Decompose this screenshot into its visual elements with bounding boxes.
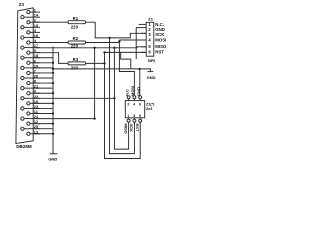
wire DB25 pin 24 stub bbox=[24, 118, 40, 120]
node junction MISO branch A bbox=[93, 47, 95, 49]
ground symbol right of Z1 bbox=[147, 71, 153, 73]
wire DB25 pin 5 stub bbox=[30, 52, 40, 54]
node DB25 pin 18 bbox=[21, 56, 24, 59]
node DB25 pin 13 bbox=[27, 132, 30, 135]
node DB25 pin 7 bbox=[27, 71, 30, 74]
wire DB25 row 13 to ground bus bbox=[33, 133, 53, 135]
svg-text:5: 5 bbox=[148, 44, 151, 49]
resistor R2 bbox=[68, 41, 86, 44]
svg-text:MOSI: MOSI bbox=[130, 86, 135, 96]
DB25 pin numbers bbox=[34, 8, 39, 135]
svg-text:4: 4 bbox=[148, 38, 151, 43]
node DB25 pin 23 bbox=[21, 107, 24, 110]
DB25 pin circles bbox=[21, 10, 30, 135]
svg-text:MOSI: MOSI bbox=[155, 38, 166, 43]
svg-text:SCK: SCK bbox=[155, 32, 165, 37]
node DB25 pin 6 bbox=[27, 61, 30, 64]
wire pin stubs DB25 bbox=[24, 12, 53, 134]
svg-text:Z3: Z3 bbox=[19, 2, 25, 7]
node ground bus junction bbox=[52, 62, 54, 64]
node ground bus junction bbox=[52, 102, 54, 104]
wire DB25 pin 8 stub bbox=[30, 82, 40, 84]
node DB25 pin 16 bbox=[21, 36, 24, 39]
svg-text:GND: GND bbox=[136, 87, 141, 96]
wire DB25 pin 17 stub bbox=[24, 47, 40, 49]
svg-text:3: 3 bbox=[148, 32, 151, 37]
wire GND junction down to Z2 top pin6 bbox=[139, 69, 141, 96]
wire DB25 pin 12 stub bbox=[30, 123, 40, 125]
wire Z1 pin2 GND stub and down bbox=[136, 28, 146, 59]
wire SCK branch down mid U-loop to Z2 bbox=[110, 38, 135, 154]
wire RST: R3 out, up at x104.5, right into Z1 pin6 bbox=[86, 52, 147, 63]
wire Z1 pin1 stub bbox=[139, 23, 147, 25]
svg-text:GND: GND bbox=[147, 75, 156, 80]
svg-text:5: 5 bbox=[139, 114, 141, 118]
svg-text:N.C: N.C bbox=[124, 89, 129, 96]
wire DB25 pin2 to R1 bbox=[33, 21, 68, 23]
wire Z2 bottom pin stubs bbox=[129, 118, 141, 119]
wire DB25 row 7 to ground bus bbox=[33, 72, 53, 74]
node junction MOSI branch bbox=[118, 40, 120, 42]
wire DB25 pin 2 stub bbox=[30, 21, 40, 23]
connector Z3 DB25M body bbox=[16, 8, 33, 144]
node junction SCK branch bbox=[108, 37, 110, 39]
node Z2 top pin circles bbox=[127, 96, 130, 99]
Z1 pin numbers bbox=[148, 22, 151, 55]
wire DB25 pin 25 stub bbox=[24, 128, 40, 130]
svg-text:SCK: SCK bbox=[129, 124, 134, 133]
node DB25 pin 5 bbox=[27, 51, 30, 54]
svg-text:R1: R1 bbox=[73, 16, 79, 21]
wire DB25 pin 9 stub bbox=[30, 92, 40, 94]
svg-text:6: 6 bbox=[139, 103, 141, 107]
wire DB25 row 9 to ground bus bbox=[33, 92, 53, 94]
node ground bus junction bbox=[52, 72, 54, 74]
svg-text:Z2(*): Z2(*) bbox=[146, 103, 155, 107]
node ground bus junction bbox=[52, 92, 54, 94]
node DB25 pin 14 bbox=[21, 16, 24, 19]
wire DB25 pin 18 stub bbox=[24, 57, 40, 59]
node DB25 pin 15 bbox=[21, 26, 24, 29]
node ground bus junction bbox=[52, 112, 54, 114]
wire DB25 pin 11 stub bbox=[30, 113, 40, 115]
node junction pin24 tee bbox=[93, 117, 95, 119]
wire DB25 row 10 to ground bus bbox=[33, 102, 53, 104]
wire DB25 pin 22 stub bbox=[24, 97, 40, 99]
wire DB25 pin 10 stub bbox=[30, 102, 40, 104]
wire DB25 pin 1 stub bbox=[30, 11, 40, 13]
connector Z2 box bbox=[125, 101, 144, 118]
wire DB25 pin 7 stub bbox=[30, 72, 40, 74]
node DB25 pin 4 bbox=[27, 41, 30, 44]
wire Z1 stubs bbox=[141, 33, 146, 52]
wire DB25 pin24 row tee into MISO vertical bbox=[33, 118, 94, 120]
wire RST vertical down outer U-loop to Z2 bbox=[105, 52, 141, 158]
svg-text:220: 220 bbox=[71, 66, 79, 71]
svg-text:220: 220 bbox=[71, 44, 79, 49]
node ground bus junction bbox=[52, 133, 54, 135]
node junction RST line bbox=[103, 51, 105, 53]
wire DB25 row 8 to ground bus bbox=[33, 82, 53, 84]
node DB25 pin 2 bbox=[27, 21, 30, 24]
junction dots bbox=[52, 37, 141, 135]
wire DB25 row 12 to ground bus bbox=[33, 123, 53, 125]
wire DB25 pin22 row bbox=[33, 97, 114, 99]
node junction GND rail bbox=[138, 68, 140, 70]
node DB25 pin 21 bbox=[21, 87, 24, 90]
svg-text:RST: RST bbox=[135, 124, 140, 133]
node DB25 pin 17 bbox=[21, 46, 24, 49]
svg-text:R2: R2 bbox=[73, 36, 79, 41]
svg-text:2: 2 bbox=[127, 103, 129, 107]
node DB25 pin 11 bbox=[27, 112, 30, 115]
node DB25 pin 9 bbox=[27, 92, 30, 95]
node DB25 pin 1 bbox=[27, 10, 30, 13]
node DB25 pin 20 bbox=[21, 76, 24, 79]
node DB25 pin 19 bbox=[21, 66, 24, 69]
wire DB25 row 20 to ground bus bbox=[33, 77, 53, 79]
wire DB25 row 23 to ground bus bbox=[33, 107, 53, 109]
node DB25 pin 3 bbox=[27, 31, 30, 34]
svg-text:MISO: MISO bbox=[155, 44, 167, 49]
node ground bus junction bbox=[52, 122, 54, 124]
wire DB25 row 21 to ground bus bbox=[33, 87, 53, 89]
svg-text:MISO: MISO bbox=[123, 124, 128, 134]
node DB25 pin 24 bbox=[21, 117, 24, 120]
wire MISO line DB25 pin17 to Z1 pin5 bbox=[33, 47, 146, 48]
wire MOSI branch down to Z2 top pin4 bbox=[119, 40, 134, 96]
Z2 rotated labels and pin numbers bbox=[123, 86, 141, 134]
wire GND staircase from RST row down to rail bbox=[121, 52, 131, 69]
wire GND junction to symbol bbox=[140, 69, 151, 72]
svg-text:R3: R3 bbox=[73, 57, 79, 62]
wire DB25 pin 16 stub bbox=[24, 36, 40, 38]
node DB25 pin 22 bbox=[21, 97, 24, 100]
resistor R1 bbox=[68, 21, 86, 24]
node junction MISO branch B bbox=[113, 47, 115, 49]
wire DB25 pin 6 stub bbox=[30, 62, 40, 64]
Z1 signal labels bbox=[155, 22, 167, 55]
wire DB25 pin 3 stub bbox=[30, 31, 40, 33]
wire DB25 row 6 to ground bus bbox=[33, 62, 53, 64]
node ground bus junction bbox=[52, 68, 54, 70]
wire DB25 pin 14 stub bbox=[24, 16, 40, 18]
svg-text:GND: GND bbox=[48, 157, 57, 162]
wire DB25 row 19 to ground bus bbox=[33, 67, 53, 69]
node junction RST tee bbox=[103, 62, 105, 64]
svg-text:3: 3 bbox=[133, 114, 135, 118]
svg-text:6: 6 bbox=[148, 49, 151, 54]
node DB25 pin 10 bbox=[27, 102, 30, 105]
svg-text:SIP6: SIP6 bbox=[148, 59, 156, 63]
wire DB25 pin 20 stub bbox=[24, 77, 40, 79]
wire SCK: R1 out, down, right, up into Z1 pin3 bbox=[86, 22, 147, 38]
wire DB25 pin 23 stub bbox=[24, 107, 40, 109]
svg-text:1: 1 bbox=[127, 114, 129, 118]
wire DB25 row 25 to ground bus bbox=[33, 128, 53, 130]
connector Z1 box bbox=[146, 22, 154, 56]
wire DB25 pin 4 stub bbox=[30, 42, 40, 44]
wire DB25 pin 19 stub bbox=[24, 67, 40, 69]
wire MISO branch down to pin24 row bbox=[94, 48, 96, 119]
wire DB25 pin 13 stub bbox=[30, 133, 40, 135]
wire MOSI: R2 out to jog at x119.4 up into Z1 pin4 bbox=[86, 40, 147, 43]
node DB25 pin 12 bbox=[27, 122, 30, 125]
node ground bus junction bbox=[52, 82, 54, 84]
node DB25 pin 8 bbox=[27, 81, 30, 84]
wire DB25 pin5 jog down to R3 bbox=[33, 53, 68, 64]
wire DB25 row 11 to ground bus bbox=[33, 113, 53, 115]
svg-text:RST: RST bbox=[155, 49, 164, 54]
wire DB25 pin 21 stub bbox=[24, 87, 40, 89]
svg-text:DB25M: DB25M bbox=[16, 144, 32, 149]
resistor R3 bbox=[68, 62, 86, 65]
wire ground bus left bbox=[52, 47, 54, 154]
wire GND rail bus to junction bbox=[53, 68, 140, 70]
node DB25 pin 25 bbox=[21, 127, 24, 130]
wire DB25 row 18 to ground bus bbox=[33, 57, 53, 59]
svg-text:Z1: Z1 bbox=[148, 16, 153, 21]
wire DB25 pin 15 stub bbox=[24, 26, 40, 28]
wire Z2 top pin stubs bbox=[129, 99, 141, 101]
svg-text:220: 220 bbox=[71, 25, 79, 30]
ground symbol bottom-left bbox=[50, 153, 58, 155]
svg-text:4: 4 bbox=[133, 103, 135, 107]
svg-text:2x3: 2x3 bbox=[146, 107, 152, 111]
node Z2 bottom pin circles bbox=[127, 119, 130, 122]
node junction pin22 tee bbox=[113, 97, 115, 99]
wire MISO branch x114.4 down inner U-loop to Z2 bbox=[114, 48, 128, 149]
wire DB25 pin4 to R2 bbox=[33, 42, 68, 44]
